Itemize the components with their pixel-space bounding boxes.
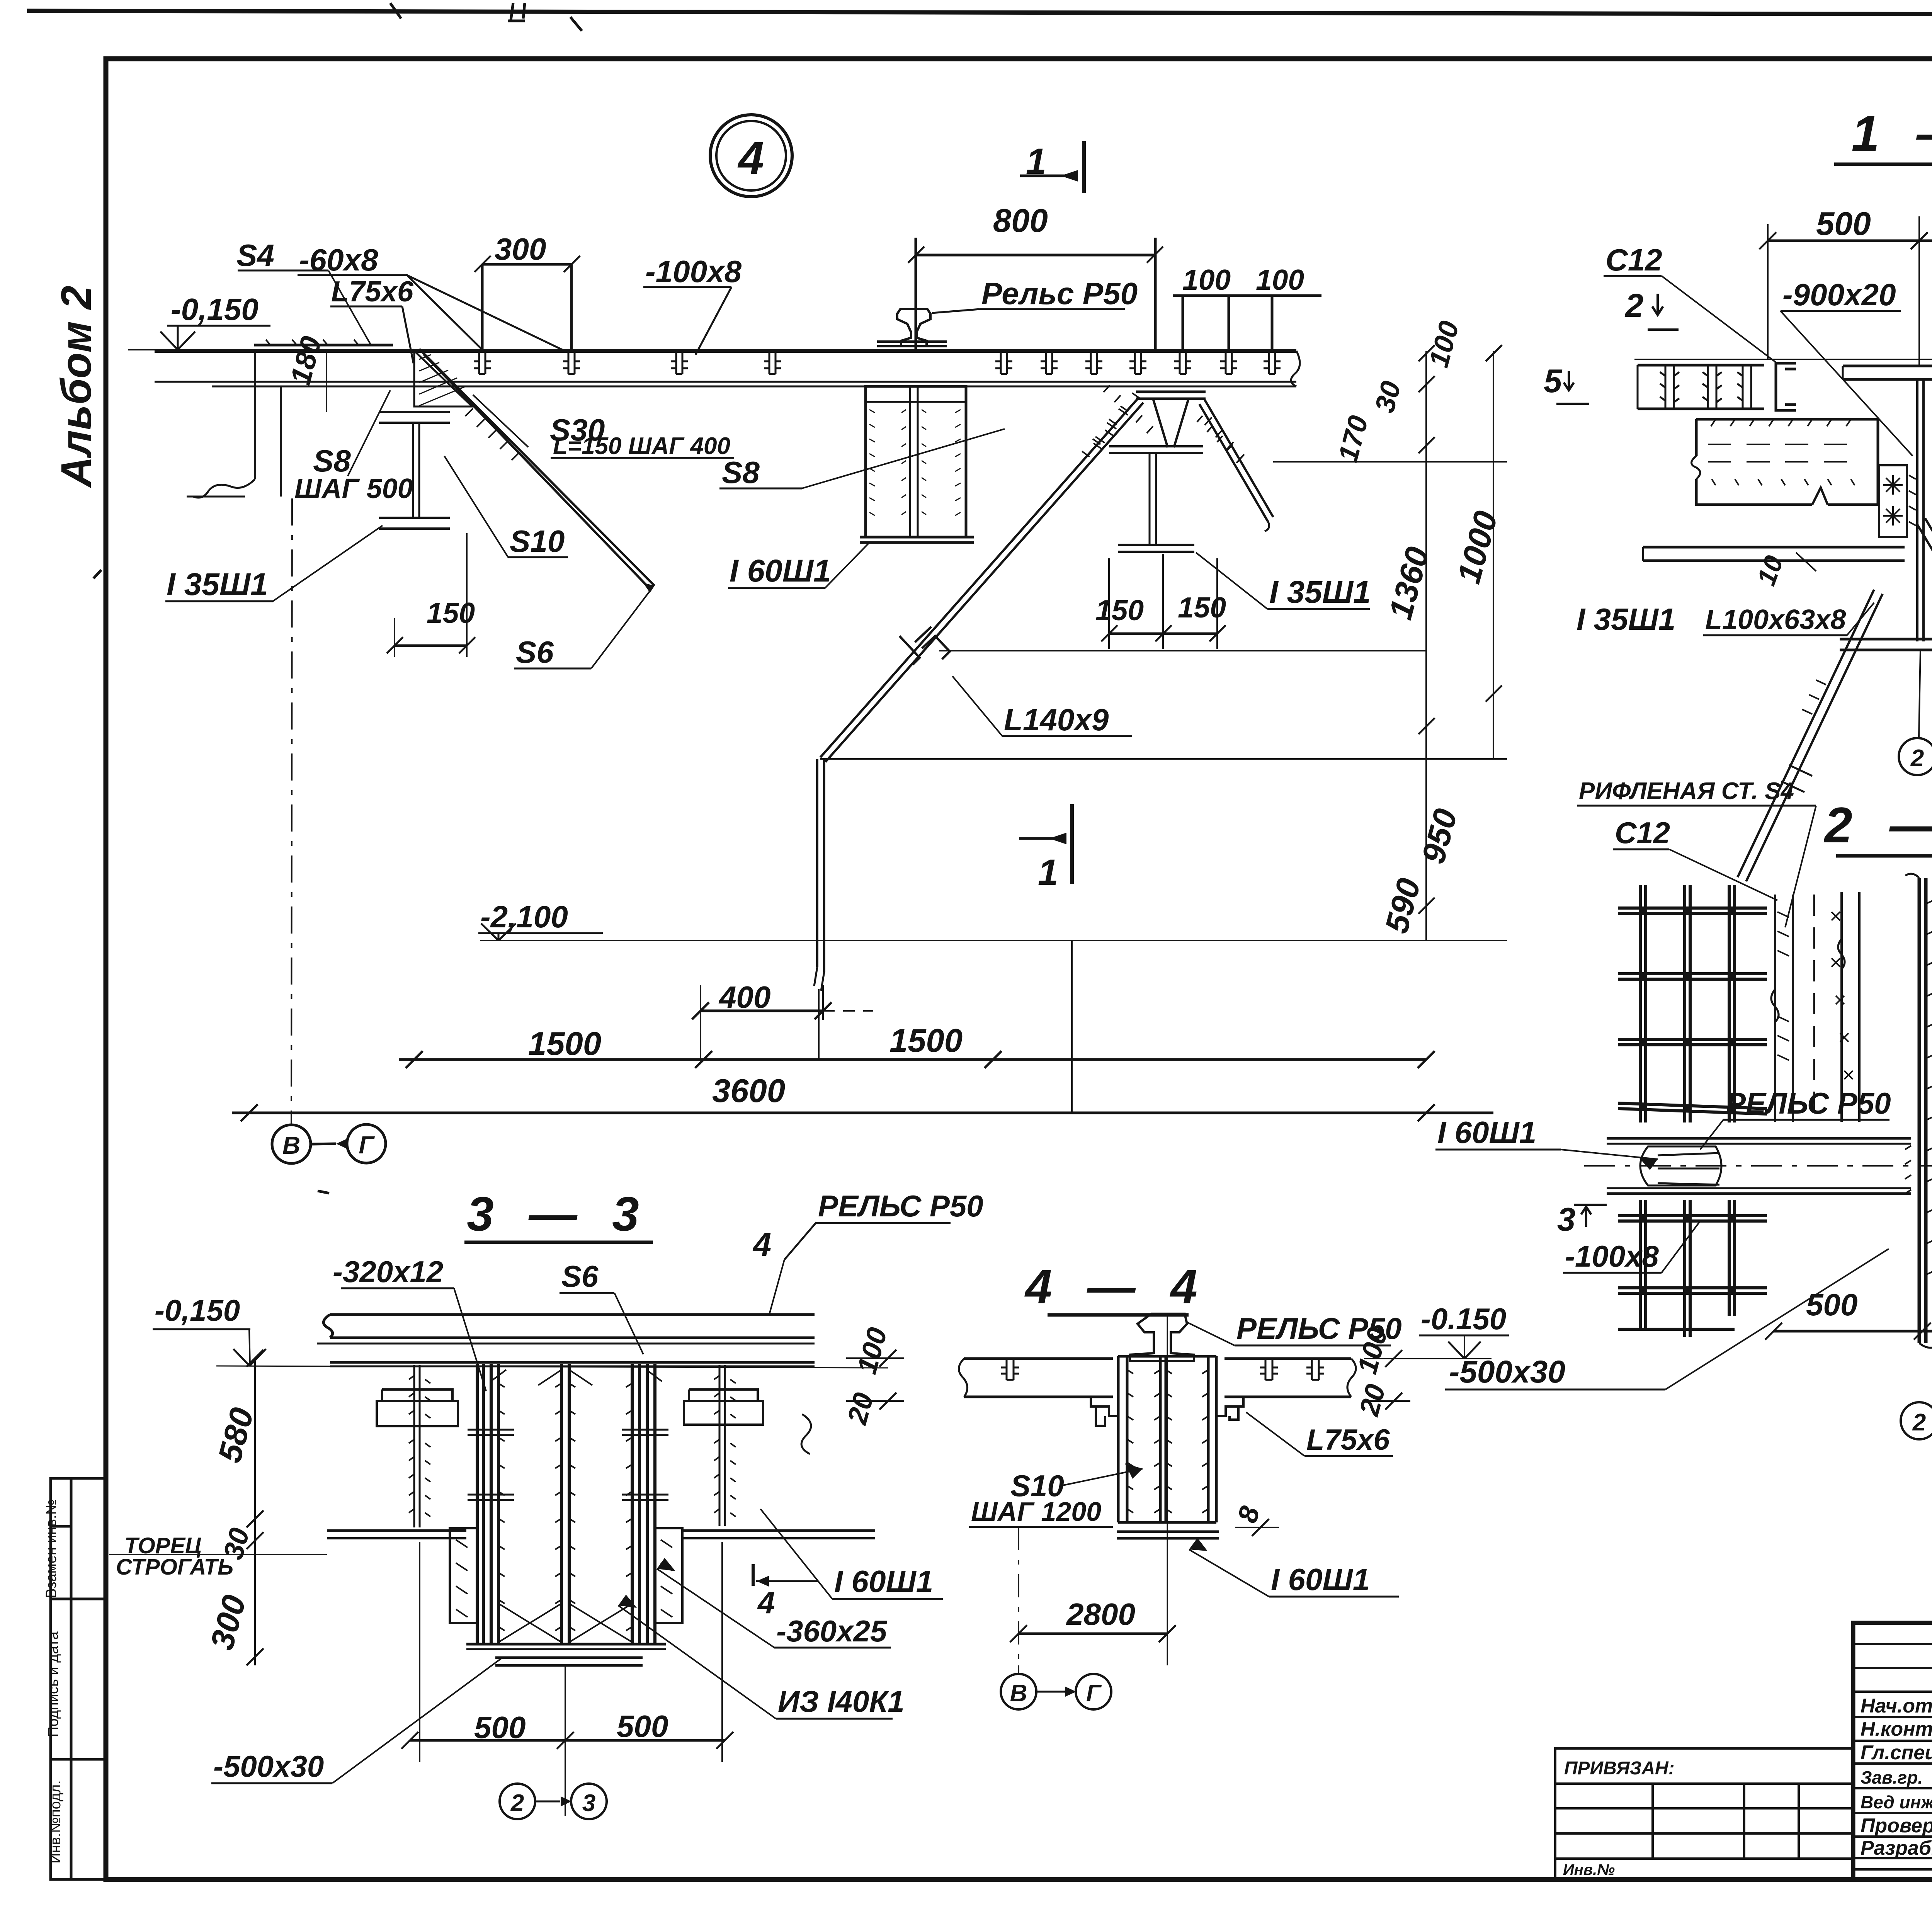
svg-text:-320x12: -320x12 bbox=[333, 1255, 443, 1289]
svg-text:L75x6: L75x6 bbox=[1306, 1423, 1390, 1456]
svg-text:S8: S8 bbox=[313, 444, 351, 478]
svg-text:3 — 3: 3 — 3 bbox=[467, 1187, 650, 1241]
svg-text:5: 5 bbox=[1544, 363, 1563, 400]
svg-text:2 — 2: 2 — 2 bbox=[1823, 797, 1932, 853]
svg-text:150: 150 bbox=[427, 597, 475, 629]
svg-text:100: 100 bbox=[851, 1324, 893, 1377]
svg-text:150: 150 bbox=[1178, 591, 1226, 624]
svg-text:2800: 2800 bbox=[1066, 1597, 1135, 1631]
svg-text:S6: S6 bbox=[516, 635, 554, 669]
svg-text:20: 20 bbox=[842, 1389, 880, 1428]
svg-text:ПРИВЯЗАН:: ПРИВЯЗАН: bbox=[1564, 1758, 1675, 1779]
svg-text:-360x25: -360x25 bbox=[776, 1614, 888, 1648]
svg-text:580: 580 bbox=[211, 1404, 261, 1466]
svg-text:170: 170 bbox=[1332, 412, 1374, 465]
svg-text:РИФЛЕНАЯ СТ. S4: РИФЛЕНАЯ СТ. S4 bbox=[1579, 778, 1794, 804]
svg-text:3600: 3600 bbox=[712, 1073, 785, 1109]
svg-text:100: 100 bbox=[1423, 318, 1465, 371]
svg-text:8: 8 bbox=[1232, 1503, 1266, 1526]
svg-text:500: 500 bbox=[617, 1709, 668, 1743]
svg-text:4 — 4: 4 — 4 bbox=[1024, 1260, 1208, 1314]
svg-text:800: 800 bbox=[993, 202, 1048, 239]
svg-text:I 35Ш1: I 35Ш1 bbox=[167, 567, 268, 602]
svg-text:Разраб.: Разраб. bbox=[1861, 1837, 1932, 1859]
svg-text:S10: S10 bbox=[510, 524, 565, 558]
svg-text:Г: Г bbox=[1086, 1680, 1102, 1707]
svg-text:300: 300 bbox=[495, 232, 546, 266]
svg-text:-100x8: -100x8 bbox=[1565, 1239, 1659, 1273]
svg-text:3: 3 bbox=[1557, 1201, 1575, 1238]
svg-text:Взамен инв.№: Взамен инв.№ bbox=[43, 1499, 60, 1598]
svg-text:2: 2 bbox=[1910, 745, 1924, 772]
svg-text:В: В bbox=[1010, 1680, 1027, 1707]
svg-text:2: 2 bbox=[1624, 287, 1643, 324]
svg-text:L=150 ШАГ 400: L=150 ШАГ 400 bbox=[553, 433, 730, 459]
svg-text:-60x8: -60x8 bbox=[299, 243, 378, 277]
svg-text:Нач.отд.: Нач.отд. bbox=[1861, 1695, 1932, 1717]
svg-text:-100x8: -100x8 bbox=[645, 254, 742, 289]
svg-text:950: 950 bbox=[1415, 805, 1464, 867]
svg-text:Н.контр: Н.контр bbox=[1861, 1718, 1932, 1740]
svg-text:Г: Г bbox=[359, 1131, 375, 1159]
svg-text:S4: S4 bbox=[236, 238, 274, 272]
svg-text:-2,100: -2,100 bbox=[480, 900, 568, 934]
svg-text:-0,150: -0,150 bbox=[171, 292, 259, 327]
svg-text:I 60Ш1: I 60Ш1 bbox=[1437, 1115, 1536, 1150]
svg-text:-500x30: -500x30 bbox=[1449, 1354, 1565, 1389]
svg-text:Провер.: Провер. bbox=[1861, 1815, 1932, 1837]
svg-text:Вед инж: Вед инж bbox=[1861, 1792, 1932, 1812]
svg-text:I 60Ш1: I 60Ш1 bbox=[1271, 1562, 1370, 1597]
svg-text:4: 4 bbox=[757, 1585, 775, 1620]
svg-text:300: 300 bbox=[204, 1591, 253, 1654]
svg-text:Рельс Р50: Рельс Р50 bbox=[981, 276, 1138, 311]
svg-text:-0,150: -0,150 bbox=[155, 1293, 240, 1327]
svg-text:Альбом 2: Альбом 2 bbox=[53, 286, 100, 488]
svg-text:2: 2 bbox=[1912, 1409, 1926, 1436]
svg-text:1: 1 bbox=[1038, 852, 1058, 893]
svg-text:500: 500 bbox=[1816, 206, 1871, 242]
svg-text:-500x30: -500x30 bbox=[213, 1749, 324, 1783]
svg-text:1 — 1: 1 — 1 bbox=[1852, 105, 1932, 162]
svg-text:4: 4 bbox=[738, 132, 764, 184]
svg-text:I 35Ш1: I 35Ш1 bbox=[1577, 602, 1675, 636]
svg-text:S8: S8 bbox=[722, 455, 760, 490]
svg-text:I 60Ш1: I 60Ш1 bbox=[730, 553, 831, 588]
svg-text:500: 500 bbox=[1806, 1287, 1857, 1322]
svg-text:РЕЛЬС Р50: РЕЛЬС Р50 bbox=[818, 1189, 983, 1223]
svg-text:С12: С12 bbox=[1605, 243, 1662, 277]
svg-text:ШАГ 500: ШАГ 500 bbox=[294, 473, 413, 504]
svg-text:В: В bbox=[282, 1131, 300, 1159]
svg-text:I 60Ш1: I 60Ш1 bbox=[834, 1564, 933, 1599]
svg-text:4: 4 bbox=[752, 1226, 771, 1263]
svg-text:30: 30 bbox=[1369, 378, 1407, 416]
svg-text:S6: S6 bbox=[561, 1259, 599, 1293]
svg-text:180: 180 bbox=[284, 333, 328, 388]
svg-text:СТРОГАТЬ: СТРОГАТЬ bbox=[116, 1554, 233, 1580]
svg-text:L140x9: L140x9 bbox=[1004, 702, 1109, 737]
svg-text:ИЗ I40К1: ИЗ I40К1 bbox=[778, 1684, 905, 1718]
svg-text:1360: 1360 bbox=[1382, 543, 1437, 623]
svg-text:1000: 1000 bbox=[1451, 507, 1505, 587]
svg-text:1500: 1500 bbox=[889, 1022, 963, 1059]
svg-text:Зав.гр.: Зав.гр. bbox=[1861, 1767, 1923, 1787]
svg-text:400: 400 bbox=[718, 980, 770, 1014]
svg-text:-0.150: -0.150 bbox=[1421, 1302, 1506, 1336]
svg-text:Гл.спец: Гл.спец bbox=[1861, 1742, 1932, 1764]
svg-text:С12: С12 bbox=[1615, 816, 1670, 850]
svg-text:1500: 1500 bbox=[528, 1026, 601, 1062]
svg-text:2: 2 bbox=[510, 1790, 524, 1816]
svg-text:Инв.№подл.: Инв.№подл. bbox=[48, 1780, 64, 1864]
svg-text:1: 1 bbox=[1026, 141, 1046, 182]
svg-text:I 35Ш1: I 35Ш1 bbox=[1269, 575, 1371, 610]
svg-text:150: 150 bbox=[1095, 594, 1144, 626]
svg-text:L75x6: L75x6 bbox=[331, 275, 414, 308]
svg-text:Инв.№: Инв.№ bbox=[1563, 1861, 1615, 1878]
svg-text:Подпись и дата: Подпись и дата bbox=[45, 1631, 61, 1737]
svg-text:10: 10 bbox=[1752, 552, 1789, 589]
svg-text:ШАГ 1200: ШАГ 1200 bbox=[971, 1497, 1101, 1527]
svg-text:3: 3 bbox=[582, 1790, 595, 1816]
svg-text:100: 100 bbox=[1256, 264, 1304, 296]
svg-text:100: 100 bbox=[1182, 264, 1231, 296]
svg-text:РЕЛЬС Р50: РЕЛЬС Р50 bbox=[1726, 1086, 1891, 1120]
svg-text:L100x63x8: L100x63x8 bbox=[1705, 604, 1846, 635]
svg-text:590: 590 bbox=[1378, 874, 1428, 937]
svg-text:-900x20: -900x20 bbox=[1782, 277, 1896, 312]
